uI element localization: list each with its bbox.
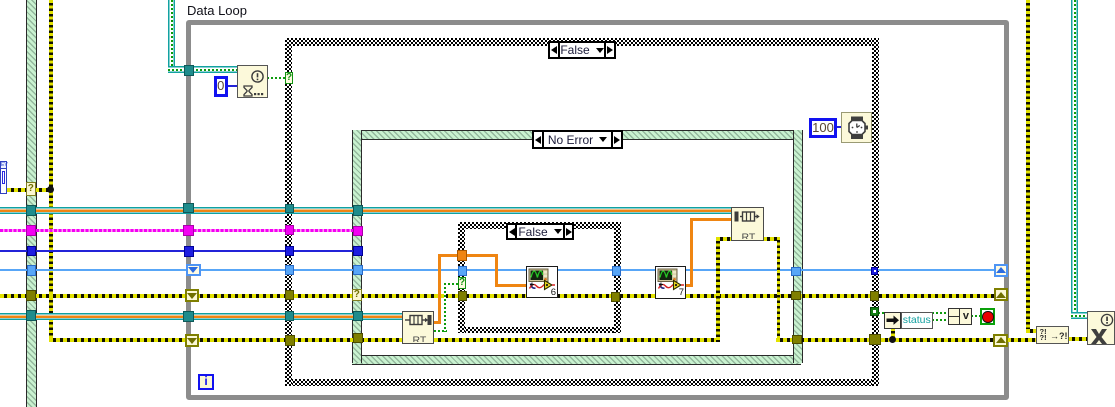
wire: error branch up to unbundle [891, 328, 895, 340]
inner case structure (False) checkered border [458, 222, 621, 229]
Merge errors icon [1036, 326, 1069, 344]
tunnels on while-loop left border [183, 203, 194, 214]
pale ? tunnel on error1 [352, 289, 363, 301]
tunnel light blue [27, 265, 37, 276]
wire: dotted green from Stall to case selector [267, 77, 285, 79]
Stall Data Flow icon [237, 65, 268, 98]
numeric constant 100 [809, 118, 837, 138]
tunnel olive error1 [26, 290, 36, 301]
tunnels on No Error right border [791, 267, 801, 276]
tunnels on outer case right border [871, 267, 879, 275]
shift register left (light blue) [186, 264, 201, 276]
shift register left (olive, error1) [185, 289, 199, 302]
wire: queue pipe 2 (to Dequeue) [0, 313, 402, 320]
wire: boolean queue pipe vertical right [1071, 0, 1078, 313]
tunnel teal queue2 [26, 310, 36, 321]
wire: error branch from left fragment [7, 188, 52, 192]
scope subVI icon 7 [655, 266, 686, 299]
shift register left (olive, error2) [185, 334, 199, 347]
green ? selector tunnel of outer case [285, 72, 293, 84]
wire: orange from Dequeue up to inner case [433, 321, 440, 324]
wire: boolean queue pipe vertical top-left [168, 0, 175, 67]
wire: dark blue numeric [0, 250, 354, 252]
wire: orange inside inner case to scope 6 [467, 254, 498, 257]
wire: vertical error wire right of loop [1026, 0, 1030, 333]
wire: error out of merge to X icon [1068, 337, 1087, 341]
wire: string (magenta) [0, 229, 354, 232]
Or function icon [948, 308, 972, 325]
left edge fragment control [0, 161, 7, 194]
selector label of outer case (False) [548, 41, 616, 59]
wire: vertical error wire left [49, 0, 53, 342]
wire: dotted green from Dequeue (timed out?) to inner selector [434, 330, 447, 332]
left cut-off case structure hatched border [26, 0, 37, 407]
wire: orange from scope 7 up to Enqueue [685, 284, 693, 287]
svg-text:RT: RT [413, 335, 427, 343]
Enqueue Element icon RT [731, 207, 764, 241]
tunnel teal queue1 [26, 205, 36, 216]
Wait (ms) watch icon [841, 112, 872, 143]
wire: error out of Enqueue down [763, 237, 780, 241]
wire: queue pipe 1 (to Enqueue) [0, 207, 731, 214]
while loop "Data Loop" border [186, 20, 1009, 401]
wire: boolean queue pipe horizontal into while loop [168, 66, 237, 73]
tunnel ? (error case selector) [26, 182, 36, 196]
wire: error line 1 [0, 294, 994, 298]
junction dot on error wire [47, 186, 54, 193]
wire: blue stub 100-constant [837, 126, 842, 128]
tunnel teal boolean pipe on while border [184, 65, 195, 76]
tunnels on outer case left border [285, 204, 294, 213]
Unbundle by Name arrow icon [884, 312, 901, 329]
svg-text:RT: RT [742, 232, 756, 240]
wire: dotted green status chain [878, 312, 884, 314]
iteration terminal i [198, 374, 214, 390]
tunnel magenta [26, 225, 36, 236]
tunnels on No Error left border [353, 205, 364, 216]
selector label of No Error case [532, 130, 623, 149]
scope subVI icon 6 [526, 266, 558, 298]
selector label of inner case (False) [506, 223, 574, 240]
shift registers on while-loop right border [994, 264, 1008, 278]
wire: blue stub 0-constant [227, 85, 237, 87]
wire: error2 riser into Enqueue [716, 238, 720, 342]
tunnels on inner case left border [457, 250, 467, 261]
tunnels on inner case right border [612, 266, 621, 276]
green boolean tunnel with dot [870, 307, 879, 316]
Data Loop label [187, 3, 247, 18]
stop button terminal [980, 308, 996, 326]
wire: light blue numeric [0, 269, 994, 271]
Dequeue Element icon RT [402, 311, 434, 344]
Release/Clear error X icon [1087, 311, 1115, 345]
No Error case structure hatched border [352, 130, 801, 140]
outer case structure (False) checkered border [285, 38, 879, 46]
green ? selector tunnel of inner case [458, 277, 466, 289]
numeric constant 0 [214, 76, 228, 97]
wire: error line 2 [49, 338, 717, 342]
tunnel blue [27, 246, 37, 257]
status field of unbundle [901, 312, 933, 329]
